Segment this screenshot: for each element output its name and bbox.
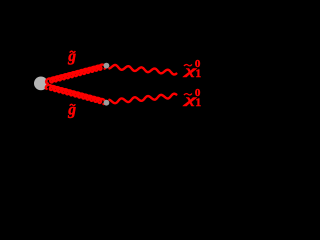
neutralino chi~0_1 wavy line (top) bbox=[109, 65, 176, 74]
neutralino chi~0_1 wavy line (bottom) bbox=[109, 94, 176, 103]
decay vertex dot (bottom) bbox=[104, 100, 110, 106]
label g~ (top gluino) bbox=[67, 48, 76, 65]
gluino propagator g~ (top coil) bbox=[46, 65, 105, 84]
label chi~0_1 (top neutralino) bbox=[182, 58, 201, 80]
svg-text:1: 1 bbox=[195, 66, 201, 80]
label g~ (bottom gluino) bbox=[67, 101, 76, 118]
interaction blob (production vertex) bbox=[34, 77, 48, 91]
svg-text:1: 1 bbox=[195, 95, 201, 109]
label chi~0_1 (bottom neutralino) bbox=[182, 87, 201, 109]
decay vertex dot (top) bbox=[104, 63, 110, 69]
gluino propagator g~ (bottom coil) bbox=[46, 85, 105, 104]
